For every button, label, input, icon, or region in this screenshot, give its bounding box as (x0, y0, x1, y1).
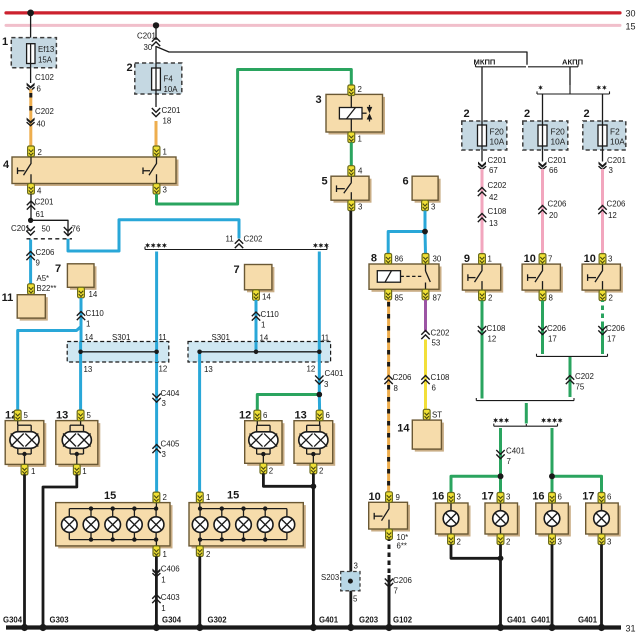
svg-text:F4: F4 (164, 75, 174, 84)
svg-text:14: 14 (262, 293, 271, 302)
svg-text:75: 75 (576, 383, 585, 392)
svg-text:12: 12 (159, 365, 168, 374)
svg-text:30: 30 (144, 43, 153, 52)
svg-text:Ef13: Ef13 (38, 45, 55, 54)
svg-text:C206: C206 (547, 324, 566, 333)
svg-text:C110: C110 (261, 310, 280, 319)
svg-text:12: 12 (307, 365, 316, 374)
svg-text:C206: C206 (607, 200, 626, 209)
svg-text:6: 6 (326, 411, 331, 420)
svg-text:1: 1 (86, 320, 90, 329)
svg-text:1: 1 (2, 36, 8, 48)
svg-text:14: 14 (85, 333, 94, 342)
svg-text:12: 12 (239, 410, 251, 422)
svg-text:40: 40 (37, 120, 46, 129)
svg-text:30: 30 (433, 255, 442, 264)
svg-text:3: 3 (607, 538, 612, 547)
svg-text:2: 2 (38, 148, 42, 157)
svg-text:S203: S203 (321, 573, 339, 582)
svg-text:13: 13 (84, 365, 93, 374)
svg-text:2: 2 (319, 467, 323, 476)
svg-text:C201: C201 (11, 224, 30, 233)
svg-text:6: 6 (558, 493, 563, 502)
svg-text:15: 15 (104, 490, 116, 502)
svg-text:15: 15 (626, 22, 636, 32)
svg-text:C201: C201 (162, 106, 181, 115)
svg-text:10A: 10A (610, 137, 625, 147)
svg-text:C401: C401 (506, 447, 525, 456)
svg-text:17: 17 (482, 491, 494, 503)
svg-text:67: 67 (489, 166, 498, 175)
svg-text:1: 1 (161, 576, 165, 585)
svg-text:14: 14 (260, 334, 269, 343)
svg-text:2: 2 (464, 108, 470, 120)
svg-text:3: 3 (609, 166, 614, 175)
svg-text:G302: G302 (208, 615, 228, 624)
svg-text:17: 17 (607, 335, 616, 344)
svg-text:C102: C102 (35, 73, 54, 82)
svg-text:10A: 10A (164, 85, 179, 94)
svg-text:7: 7 (548, 255, 552, 264)
svg-text:G102: G102 (393, 615, 413, 624)
svg-text:17: 17 (582, 491, 594, 503)
svg-text:7: 7 (394, 587, 398, 596)
svg-text:2: 2 (163, 493, 167, 502)
svg-text:5: 5 (322, 176, 328, 188)
svg-text:7: 7 (55, 263, 61, 275)
svg-text:6: 6 (607, 493, 612, 502)
svg-text:8: 8 (549, 294, 554, 303)
svg-text:3: 3 (316, 94, 322, 106)
svg-text:6: 6 (37, 85, 42, 94)
svg-text:11: 11 (321, 334, 329, 343)
svg-text:86: 86 (395, 255, 404, 264)
svg-text:13: 13 (204, 365, 213, 374)
svg-text:7: 7 (507, 457, 511, 466)
svg-text:2: 2 (206, 550, 210, 559)
svg-text:C110: C110 (86, 309, 105, 318)
svg-text:31: 31 (626, 624, 636, 634)
svg-text:ST: ST (432, 411, 442, 420)
svg-text:87: 87 (433, 294, 442, 303)
svg-text:G203: G203 (359, 615, 379, 624)
svg-text:10: 10 (584, 253, 596, 265)
svg-text:15A: 15A (38, 56, 53, 65)
svg-text:16: 16 (532, 491, 544, 503)
svg-text:1: 1 (261, 321, 265, 330)
svg-text:9: 9 (36, 259, 41, 268)
svg-text:9: 9 (396, 493, 401, 502)
svg-text:12: 12 (608, 211, 617, 220)
svg-text:3: 3 (354, 562, 359, 571)
svg-text:1: 1 (161, 604, 165, 613)
svg-text:S301: S301 (212, 333, 230, 342)
svg-text:3: 3 (324, 380, 329, 389)
svg-text:C201: C201 (488, 156, 507, 165)
svg-text:G401: G401 (319, 615, 339, 624)
svg-text:C404: C404 (161, 389, 180, 398)
svg-text:4: 4 (3, 159, 10, 171)
svg-text:C206: C206 (548, 200, 567, 209)
svg-text:C108: C108 (431, 373, 450, 382)
svg-text:85: 85 (395, 294, 404, 303)
svg-text:1: 1 (82, 467, 86, 476)
svg-text:C202: C202 (35, 107, 54, 116)
svg-text:G304: G304 (162, 615, 182, 624)
svg-text:10A: 10A (490, 137, 505, 147)
svg-text:66: 66 (549, 166, 558, 175)
svg-text:10: 10 (524, 253, 536, 265)
svg-text:F2: F2 (610, 127, 620, 137)
svg-text:9: 9 (464, 253, 470, 265)
svg-text:B22**: B22** (37, 284, 57, 293)
svg-text:11: 11 (2, 292, 14, 304)
svg-text:6: 6 (432, 384, 437, 393)
svg-text:6: 6 (263, 411, 268, 420)
svg-text:15: 15 (227, 490, 239, 502)
svg-text:5: 5 (24, 411, 29, 420)
svg-text:C206: C206 (36, 248, 55, 257)
svg-text:10A: 10A (551, 137, 566, 147)
svg-text:3: 3 (506, 493, 511, 502)
svg-text:C406: C406 (161, 565, 180, 574)
svg-text:C202: C202 (488, 181, 507, 190)
svg-text:1: 1 (488, 255, 492, 264)
svg-text:8: 8 (371, 253, 377, 265)
svg-text:1: 1 (206, 493, 210, 502)
svg-text:G401: G401 (578, 615, 598, 624)
svg-text:50: 50 (42, 225, 51, 234)
svg-text:42: 42 (489, 193, 498, 202)
svg-text:2: 2 (127, 62, 133, 74)
svg-text:C201: C201 (607, 156, 626, 165)
svg-text:G401: G401 (507, 615, 527, 624)
svg-text:F20: F20 (551, 127, 566, 137)
svg-text:3: 3 (457, 493, 462, 502)
svg-text:18: 18 (163, 117, 172, 126)
svg-text:14: 14 (397, 423, 410, 435)
svg-text:3: 3 (558, 538, 563, 547)
svg-text:C201: C201 (548, 156, 567, 165)
svg-text:7: 7 (234, 264, 240, 276)
svg-text:11: 11 (159, 333, 167, 342)
svg-text:5: 5 (353, 595, 358, 604)
svg-text:C403: C403 (161, 593, 180, 602)
svg-text:6: 6 (403, 176, 409, 188)
svg-text:5: 5 (87, 411, 92, 420)
svg-text:4: 4 (37, 187, 42, 196)
svg-text:C202: C202 (244, 235, 263, 244)
svg-text:C202: C202 (431, 329, 450, 338)
svg-text:2: 2 (609, 294, 613, 303)
svg-text:АКПП: АКПП (562, 58, 583, 67)
svg-text:C108: C108 (487, 324, 506, 333)
svg-text:2: 2 (524, 108, 530, 120)
svg-text:2: 2 (457, 538, 461, 547)
svg-text:3: 3 (431, 203, 436, 212)
svg-text:C206: C206 (393, 373, 412, 382)
svg-text:3: 3 (608, 255, 613, 264)
svg-text:12: 12 (488, 335, 497, 344)
svg-text:10: 10 (369, 491, 381, 503)
svg-text:G401: G401 (531, 615, 551, 624)
svg-text:G304: G304 (3, 615, 23, 624)
svg-text:4: 4 (358, 167, 363, 176)
svg-text:14: 14 (89, 290, 98, 299)
svg-text:2: 2 (584, 108, 590, 120)
svg-text:3: 3 (162, 450, 167, 459)
svg-text:G303: G303 (50, 615, 70, 624)
svg-text:МКПП: МКПП (474, 58, 496, 67)
svg-text:11: 11 (226, 235, 234, 244)
svg-text:1: 1 (163, 148, 167, 157)
svg-text:20: 20 (549, 211, 558, 220)
svg-text:76: 76 (72, 225, 81, 234)
svg-text:3: 3 (162, 399, 167, 408)
svg-text:C108: C108 (488, 207, 507, 216)
svg-text:2: 2 (269, 467, 273, 476)
svg-text:2: 2 (358, 85, 362, 94)
svg-text:53: 53 (432, 339, 441, 348)
svg-text:F20: F20 (490, 127, 505, 137)
svg-text:1: 1 (358, 135, 362, 144)
svg-text:1: 1 (31, 467, 35, 476)
svg-text:13: 13 (295, 410, 307, 422)
svg-text:C202: C202 (575, 372, 594, 381)
svg-text:16: 16 (432, 491, 444, 503)
svg-text:C405: C405 (161, 440, 180, 449)
svg-text:3: 3 (358, 203, 363, 212)
svg-text:6**: 6** (397, 542, 407, 551)
svg-text:C201: C201 (35, 198, 54, 207)
svg-text:8: 8 (394, 384, 399, 393)
svg-text:C401: C401 (325, 369, 344, 378)
svg-text:C206: C206 (606, 324, 625, 333)
svg-text:3: 3 (163, 186, 168, 195)
svg-text:2: 2 (506, 538, 510, 547)
svg-text:13: 13 (489, 219, 498, 228)
svg-text:C201: C201 (137, 32, 156, 41)
svg-text:S301: S301 (112, 333, 130, 342)
svg-text:2: 2 (488, 294, 492, 303)
svg-text:13: 13 (56, 410, 68, 422)
svg-text:61: 61 (36, 210, 45, 219)
svg-text:17: 17 (548, 335, 557, 344)
svg-text:A5*: A5* (37, 274, 50, 283)
svg-text:C206: C206 (393, 576, 412, 585)
svg-text:1: 1 (163, 550, 167, 559)
svg-text:30: 30 (626, 9, 636, 19)
